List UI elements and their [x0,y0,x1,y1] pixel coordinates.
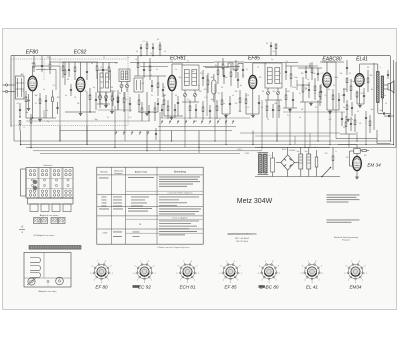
wire right edge vertical 2 [393,60,395,145]
svg-text:Abgleichfolge: Abgleichfolge [135,170,148,173]
wire vol h [300,101,322,103]
wire OT bottom [377,103,379,114]
svg-text:5p: 5p [328,89,330,91]
svg-text:9: 9 [111,266,112,268]
bandswitch lower bar [28,198,74,204]
chassis coil loops [30,258,41,263]
wire EM34 feed [338,144,357,146]
svg-text:2: 2 [237,280,238,282]
ground EM34 [356,176,358,178]
svg-text:460: 460 [275,103,278,105]
band switch contacts S3 [115,132,116,133]
svg-text:15k: 15k [234,91,237,93]
svg-text:W: W [267,119,269,121]
svg-text:2: 2 [276,280,277,282]
label smear EC92 [133,285,140,288]
svg-text:50: 50 [221,87,223,89]
svg-text:25: 25 [35,103,37,105]
wire left mid verticals [13,56,15,141]
wire drop x277b [276,133,278,141]
resistor R41 [74,67,76,72]
svg-text:0,1: 0,1 [171,61,174,63]
trimmer CT6 [276,91,279,94]
electrolytic C36 [307,154,311,169]
wire EC92 anode [80,62,82,77]
resistor R37 [332,156,334,161]
svg-text:0,1: 0,1 [143,41,146,43]
svg-text:1M: 1M [301,73,304,75]
ground glx [111,110,113,112]
trimmer CT2 [104,95,107,98]
anode box EM34 [354,149,360,154]
svg-text:0,5: 0,5 [307,85,310,87]
svg-text:9: 9 [240,266,241,268]
svg-text:30: 30 [175,95,177,97]
antenna coil L1 [16,76,25,99]
svg-text:0,1: 0,1 [239,111,242,113]
ground EC92 [80,112,82,114]
capacitor C51 [209,110,211,112]
svg-text:470k: 470k [292,87,296,89]
resistor R15 [163,100,165,105]
svg-text:1: 1 [112,273,113,275]
resistor R17 [217,70,219,75]
capacitor C24 [338,99,340,101]
notes block measurement [327,194,360,197]
svg-text:2: 2 [362,280,363,282]
wire screen rail C [203,66,240,68]
svg-text:1: 1 [322,273,323,275]
wire vol top [298,67,322,69]
svg-text:EF 85: EF 85 [224,285,237,290]
dashed enclosure tuner section [11,59,128,126]
wire drop x60 [59,126,61,142]
ground EL41 [359,104,361,106]
capacitor C48 [161,109,163,111]
wire lower bus 1 [14,140,391,142]
svg-text:2p: 2p [101,103,103,105]
resistor R22 [290,74,292,79]
svg-text:1k: 1k [164,51,166,53]
capacitor C47 [148,111,150,113]
svg-text:6,3V~: 6,3V~ [237,149,243,151]
wire det out [297,84,310,86]
wire EF85 anode [252,63,254,75]
capacitor C26 [343,94,345,96]
chassis outline [24,253,71,288]
svg-text:5n: 5n [299,117,301,119]
ground midm [225,114,227,116]
svg-text:50: 50 [315,107,317,109]
svg-text:40: 40 [111,87,113,89]
wire gnd rail right [283,111,345,113]
svg-text:25: 25 [377,87,379,89]
capacitor C13 [157,103,159,105]
svg-text:6: 6 [259,266,260,268]
trimmer CT5 [266,91,269,94]
svg-text:L1: L1 [22,91,24,93]
resistor R12 [149,66,151,71]
resistor R19 [221,100,223,105]
wire mid right v1 [376,130,378,144]
resistor R34 [354,120,356,125]
svg-text:1k: 1k [107,117,109,119]
bandswitch tabs [30,204,38,212]
svg-text:5k: 5k [261,107,263,109]
capacitor C61 [41,65,43,67]
svg-text:50p: 50p [294,77,297,79]
svg-text:150: 150 [360,93,363,95]
svg-text:50k: 50k [34,95,37,97]
wire screen rail B [140,66,168,68]
svg-text:7: 7 [97,261,98,263]
wire EM34 down [356,171,358,176]
capacitor C11 [151,85,153,87]
svg-text:UKW: UKW [103,233,108,235]
chassis small part [47,280,49,282]
wire IFT2 links [267,88,269,91]
capacitor C50 [195,109,197,111]
svg-text:AM: AM [21,73,24,76]
svg-text:0,1: 0,1 [342,95,345,97]
svg-text:1k: 1k [115,63,117,65]
svg-text:0,1: 0,1 [17,103,20,105]
resistor R42 [96,66,98,71]
resistor R31 [356,92,358,97]
tube EF85 V4 [249,75,257,88]
ground EABC80 [329,110,331,112]
svg-text:5n6: 5n6 [273,91,276,93]
junction n3 [19,116,20,117]
wire EC92 cathode [80,92,82,112]
resistor R4 [64,70,66,75]
svg-text:2k: 2k [385,103,387,105]
wire IFT1 links [184,90,186,93]
svg-text:FO ER: FO ER [42,222,48,224]
svg-text:0,1: 0,1 [329,113,332,115]
band switch contacts S1 [161,121,162,122]
svg-text:5k: 5k [343,127,345,129]
ground ECH81 [171,116,173,118]
svg-text:50: 50 [157,39,159,41]
resistor R52 [202,107,204,112]
capacitor C15 [202,77,204,79]
svg-text:4: 4 [223,280,224,282]
svg-text:6: 6 [135,266,136,268]
svg-text:Ferrite nur Abgleich: Ferrite nur Abgleich [172,216,187,219]
svg-text:EM34: EM34 [349,285,361,290]
capacitor C30 [350,123,352,125]
IF transformer T1 [182,65,199,90]
junction d1 [20,144,21,145]
capacitor C2 [45,100,47,102]
svg-text:Bereich: Bereich [100,170,108,173]
power transformer T4 [259,154,263,173]
svg-text:FO ER: FO ER [34,222,40,224]
trimmer CT3 [183,93,186,96]
wire tone h [340,133,356,135]
mains switch S2 [322,168,330,177]
wire right v line [373,63,375,130]
capacitor C21 [292,99,294,101]
resistor R5 [89,95,91,100]
socket view EF 80 [94,264,109,279]
tube EM34 V7 [353,156,362,170]
svg-text:0,5M: 0,5M [343,89,348,91]
svg-text:EF80: EF80 [26,50,39,56]
wire shield drop [206,75,208,116]
capacitor C54 [317,73,319,75]
svg-text:6k: 6k [280,83,282,85]
junction bus1 [140,55,141,56]
svg-text:50k: 50k [225,77,228,79]
output transformer T3 primary [377,72,380,103]
svg-text:0,1: 0,1 [247,95,250,97]
svg-text:2n: 2n [351,119,353,121]
label smear EABC80 [259,285,265,288]
svg-text:50µ: 50µ [296,151,299,153]
svg-text:7: 7 [265,261,266,263]
svg-text:50k: 50k [89,95,92,97]
resistor R32 [367,78,369,83]
junction n1 [32,117,33,118]
wire top HT bus [11,55,390,57]
capacitor C33 bottom [383,112,385,114]
capacitor C44 [117,101,119,103]
wire anode rail A [49,65,60,67]
capacitor C5 [95,99,97,101]
resistor R53 [216,106,218,111]
svg-text:2n: 2n [299,93,301,95]
tube EF80 V1 [28,76,37,91]
resistor R21 [245,99,247,104]
capacitor C17 [237,79,239,81]
resistor R56 [311,68,313,73]
svg-text:9: 9 [278,266,279,268]
trimmer ref boxes [34,218,41,224]
svg-text:5: 5 [90,273,91,275]
tube EL41 V6 [355,74,364,87]
svg-text:8k: 8k [215,65,217,67]
electrolytic C35 [299,154,303,169]
svg-text:3n: 3n [65,95,67,97]
svg-text:Leitstrahl der Wellen abgleich: Leitstrahl der Wellen abgleichen [168,192,193,195]
resistor R54 [222,64,224,69]
wire EL41 cathode [359,86,361,104]
trimmer CT1 [98,95,101,98]
svg-text:L4: L4 [100,67,102,69]
svg-text:5: 5 [176,273,177,275]
capacitor C7 [19,109,21,111]
svg-text:1M: 1M [57,97,60,99]
resistor R30 [346,105,348,110]
resistor R20 [239,98,241,103]
svg-text:2M: 2M [287,91,290,93]
svg-text:FO ER: FO ER [52,222,58,224]
capacitor C42 [102,69,104,71]
wire mid right h1 [336,138,377,140]
wire gnd rail left2 [98,109,132,111]
ground ant [28,107,30,109]
resistor R38 em [362,150,367,152]
svg-text:50p: 50p [211,99,214,101]
resistor R50 [167,106,169,111]
svg-text:30: 30 [266,43,268,45]
wire EL41 anode [359,64,361,74]
resistor R45 above bus right [275,44,277,49]
svg-text:7: 7 [140,261,141,263]
svg-text:0,2: 0,2 [246,69,249,71]
wire PSU bottom [255,176,340,178]
capacitor C3 [56,107,58,109]
svg-text:8p: 8p [240,85,242,87]
svg-text:ECH 81: ECH 81 [179,285,196,290]
capacitor C53 [305,71,307,73]
ground osc [105,104,107,106]
wire switch bus [158,126,236,128]
capacitor C43 [105,99,107,101]
resistor R25 [314,86,316,91]
socket view EM34 [348,264,363,279]
wire speaker links [384,84,388,86]
bandswitch dark cores [33,180,37,184]
svg-text:220: 220 [325,153,328,155]
tube EC92 V2 [76,77,85,91]
resistor R40 [62,66,64,71]
junction n2 [89,111,90,112]
capacitor C6 [112,98,114,100]
wire gnd rail mid [160,117,250,119]
capacitor C52 [242,69,244,71]
wire vertical drops to heater bus [59,66,61,141]
svg-text:0,1: 0,1 [273,51,276,53]
svg-text:4: 4 [180,280,181,282]
capacitor C1 [27,99,29,101]
wire anode rail C [244,62,298,64]
svg-text:2: 2 [108,280,109,282]
wire screen rail D [286,65,318,67]
svg-text:50: 50 [349,73,351,75]
svg-text:70: 70 [74,97,76,99]
svg-text:1k: 1k [333,85,335,87]
svg-text:2k: 2k [150,75,152,77]
capacitor C12 [162,89,164,91]
wire right edge vertical 3 [395,62,397,148]
resistor R2 [39,99,41,104]
svg-text:25k: 25k [84,91,87,93]
svg-text:25: 25 [279,73,281,75]
coil L6 [212,80,216,94]
svg-text:6: 6 [92,266,93,268]
wire anode rail D [322,61,344,63]
svg-text:5p: 5p [136,51,138,53]
capacitor C20 [285,71,287,73]
resistor R28 [346,78,348,83]
svg-text:B250: B250 [282,149,286,151]
capacitor C60 [155,133,157,135]
wire ECH81 anode [171,64,173,75]
svg-text:6: 6 [346,266,347,268]
socket view EC 92 [137,264,152,279]
svg-text:6: 6 [302,266,303,268]
resistor R9 above bus [146,44,148,49]
capacitor C23 [320,91,322,93]
speaker LS [388,84,391,91]
svg-text:0,1: 0,1 [53,85,56,87]
capacitor C55 [272,109,274,111]
ground vol [310,102,312,104]
resistor R47 [123,98,125,103]
capacitor C14 [177,102,179,104]
junction dots on buses [59,140,60,141]
svg-text:4: 4 [137,280,138,282]
capacitor C29 [341,118,343,120]
svg-text:1n: 1n [384,95,386,97]
capacitor C8 above bus [140,47,142,49]
svg-text:1k2: 1k2 [315,147,318,149]
svg-text:Abgleich von oben: Abgleich von oben [39,290,58,293]
svg-text:30n: 30n [371,109,374,111]
wire drop x199 [198,131,200,148]
svg-text:2: 2 [151,280,152,282]
resistor R10 above bus [159,45,161,50]
svg-text:460: 460 [370,75,373,77]
svg-text:4W 2 +40 300µV: 4W 2 +40 300µV [235,238,250,240]
svg-text:0,2: 0,2 [129,117,132,119]
wire lower bus 5 [40,153,240,155]
wire EABC80 anode [326,62,328,73]
svg-text:1k: 1k [357,111,359,113]
resistor R3 [52,97,54,102]
resistor R11 [137,63,139,68]
capacitor C9 above bus [152,47,154,49]
chassis tuning cap [28,278,35,285]
capacitor C16 [223,75,225,77]
capacitor C22 [308,89,310,91]
wire antenna leads [8,84,15,86]
svg-text:4: 4 [348,280,349,282]
svg-text:EL41: EL41 [356,57,368,63]
wire mid h2 [214,61,244,63]
svg-text:5: 5 [301,273,302,275]
wire drop x253 [252,131,254,145]
resistor R13 [157,83,159,88]
bridge rectifier GR1 [281,155,295,170]
svg-text:2: 2 [194,280,195,282]
ground EF85 [252,114,254,116]
resistor R14 [138,100,140,105]
svg-text:8: 8 [272,261,273,263]
svg-text:o: o [48,285,49,287]
svg-text:Abgleich von unten: Abgleich von unten [40,214,59,217]
svg-text:1: 1 [366,273,367,275]
mixer coil L5 [119,69,130,82]
resistor R27 [319,92,321,97]
capacitor C41 [86,71,88,73]
resistor R24 volume pot [302,85,304,92]
svg-text:7: 7 [308,261,309,263]
wire lower bus 3 [26,147,396,149]
wire agc rail [26,120,150,122]
svg-text:0,1: 0,1 [187,99,190,101]
svg-text:220V: 220V [245,153,250,155]
capacitor C27 [351,107,353,109]
svg-text:1k: 1k [307,79,309,81]
trimmer CT7 [120,84,123,87]
svg-text:25n: 25n [339,73,342,75]
svg-text:5n: 5n [156,69,158,71]
svg-text:10n: 10n [351,81,354,83]
